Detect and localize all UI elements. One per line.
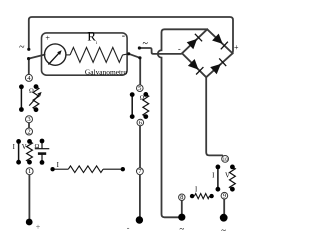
svg-text:V: V [22, 144, 27, 151]
svg-text:-: - [178, 45, 181, 54]
svg-text:+: + [45, 34, 50, 43]
svg-text:~: ~ [142, 39, 148, 50]
svg-text:Ω: Ω [34, 143, 39, 150]
svg-text:~: ~ [179, 224, 184, 234]
svg-text:~: ~ [221, 225, 226, 235]
svg-text:1: 1 [28, 168, 31, 175]
svg-text:10: 10 [223, 158, 228, 163]
svg-text:V: V [225, 172, 230, 179]
svg-text:Galvanometro: Galvanometro [85, 67, 128, 76]
svg-text:+: + [36, 223, 41, 232]
svg-text:2: 2 [27, 128, 30, 135]
svg-text:+: + [234, 43, 239, 52]
svg-text:-: - [122, 30, 125, 41]
svg-text:~: ~ [19, 42, 25, 53]
svg-text:Ω: Ω [140, 95, 145, 102]
svg-text:Ω: Ω [29, 87, 34, 94]
svg-text:-: - [127, 224, 130, 233]
